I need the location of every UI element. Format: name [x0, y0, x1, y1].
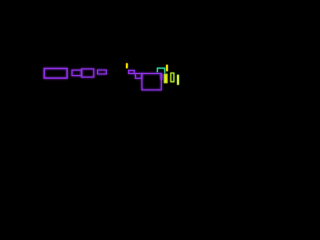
node tick J3 (yellow fill): [165, 75, 167, 82]
pin pad P1 (purple): [160, 74, 162, 80]
resistor R4: [98, 70, 107, 74]
resistor R1: [44, 69, 67, 79]
wire net W1 (purple horizontal): [128, 73, 162, 75]
resistor R6: [135, 74, 141, 79]
resistor R3: [82, 69, 94, 77]
IC U1: [142, 74, 161, 90]
capacitor C1 plate A (green outline): [164, 74, 167, 83]
node tick J2 (yellow): [166, 65, 168, 71]
wire net CLK (cyan): [157, 68, 164, 73]
capacitor C1 plate B (green outline): [171, 73, 174, 82]
resistor R2: [72, 70, 82, 76]
node tick J1 (yellow): [126, 63, 128, 68]
pin pad P2 (chartreuse): [177, 75, 179, 85]
resistor R5: [129, 70, 135, 73]
